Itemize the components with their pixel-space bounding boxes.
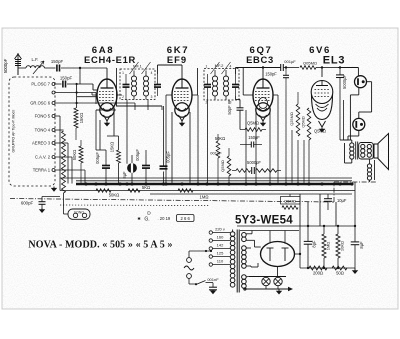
svg-text:15KΩ: 15KΩ — [79, 113, 84, 124]
svg-text:220 v: 220 v — [215, 227, 225, 232]
svg-text:150pF: 150pF — [60, 76, 73, 81]
svg-text:5KΩ: 5KΩ — [142, 185, 150, 190]
svg-text:C.A.V. 2: C.A.V. 2 — [35, 155, 51, 160]
svg-text:GRUPPO AF Tipo-P. Mod.I: GRUPPO AF Tipo-P. Mod.I — [12, 110, 16, 153]
svg-text:001µF: 001µF — [210, 151, 222, 156]
svg-text:150pF: 150pF — [51, 59, 64, 64]
svg-text:NOVA - MODD. « 505 » « 5 A 5 »: NOVA - MODD. « 505 » « 5 A 5 » — [28, 240, 172, 251]
svg-text:PL.OSC 7: PL.OSC 7 — [31, 82, 50, 87]
svg-text:15KΩ: 15KΩ — [110, 142, 115, 152]
svg-text:160: 160 — [217, 235, 224, 240]
svg-text:4: 4 — [230, 65, 232, 69]
svg-text:Q5MΩ: Q5MΩ — [284, 198, 296, 203]
svg-text:1: 1 — [206, 65, 208, 69]
svg-text:5000pF: 5000pF — [247, 160, 261, 165]
svg-text:1MΩ: 1MΩ — [200, 195, 209, 200]
svg-text:Q5MΩ: Q5MΩ — [314, 129, 326, 134]
svg-text:150pF: 150pF — [248, 135, 260, 140]
svg-text:TERRA 1: TERRA 1 — [33, 168, 51, 173]
svg-text:5000pF: 5000pF — [3, 58, 8, 73]
svg-text:TONO 4: TONO 4 — [35, 128, 51, 133]
svg-text:50KΩ: 50KΩ — [72, 150, 77, 161]
svg-text:4: 4 — [151, 71, 153, 75]
svg-text:50pF: 50pF — [227, 105, 232, 115]
svg-text:5Y3-WE54: 5Y3-WE54 — [235, 215, 293, 227]
svg-text:8µF: 8µF — [122, 171, 127, 179]
svg-text:001nF: 001nF — [207, 277, 219, 282]
svg-text:125: 125 — [217, 251, 224, 256]
svg-text:.: . — [157, 216, 158, 221]
svg-text:5000µF: 5000µF — [342, 75, 347, 89]
svg-text:EF9: EF9 — [167, 54, 187, 65]
svg-text:MF.2: MF.2 — [215, 63, 224, 68]
svg-text:600pF: 600pF — [21, 201, 34, 206]
svg-text:Q05MΩ: Q05MΩ — [303, 61, 317, 66]
svg-text:50KΩ: 50KΩ — [215, 136, 225, 141]
svg-text:142: 142 — [217, 243, 224, 248]
svg-text:1MΩ: 1MΩ — [326, 242, 331, 251]
svg-text:10µF: 10µF — [337, 198, 347, 203]
svg-text:005µF: 005µF — [135, 149, 140, 161]
svg-text:Q5MΩ: Q5MΩ — [247, 121, 259, 126]
svg-text:3: 3 — [230, 101, 232, 105]
svg-text:8µF: 8µF — [359, 241, 364, 249]
svg-text:200Ω: 200Ω — [313, 271, 323, 276]
svg-text:EBC3: EBC3 — [246, 54, 274, 65]
svg-text:G.: G. — [144, 217, 149, 223]
svg-text:001µF: 001µF — [284, 59, 296, 64]
svg-text:AEREO 3: AEREO 3 — [32, 141, 51, 146]
svg-text:GR.OSC 6: GR.OSC 6 — [30, 101, 50, 106]
svg-text:50KΩ: 50KΩ — [109, 193, 120, 198]
svg-text:EL3: EL3 — [323, 55, 346, 67]
svg-text:50Ω: 50Ω — [336, 271, 344, 276]
svg-text:10KΩ: 10KΩ — [340, 241, 345, 251]
svg-text:110: 110 — [217, 259, 224, 264]
svg-text:2: 2 — [122, 95, 124, 99]
svg-text:1: 1 — [122, 71, 124, 75]
svg-text:150pF: 150pF — [265, 72, 277, 77]
svg-text:005µF: 005µF — [95, 152, 100, 164]
svg-text:8µF: 8µF — [312, 240, 317, 248]
svg-text:L.F.: L.F. — [32, 57, 39, 62]
svg-text:3: 3 — [151, 95, 153, 99]
svg-text:FONO 5: FONO 5 — [35, 114, 51, 119]
svg-text:MF.1: MF.1 — [133, 64, 142, 69]
svg-text:Q25MΩ: Q25MΩ — [289, 112, 294, 126]
svg-text:20 19: 20 19 — [160, 216, 171, 221]
svg-text:ECH4-E1R: ECH4-E1R — [84, 54, 136, 65]
svg-text:Q5MΩ: Q5MΩ — [301, 116, 306, 127]
svg-text:Q5MΩ: Q5MΩ — [220, 160, 225, 172]
svg-text:2 6 6: 2 6 6 — [181, 216, 191, 221]
